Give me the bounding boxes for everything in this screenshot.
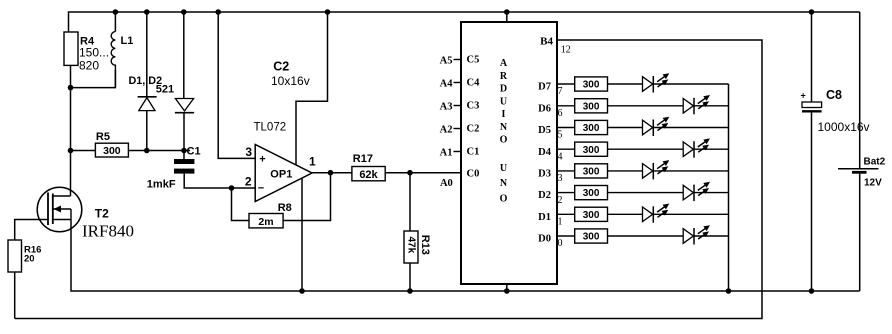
svg-text:6: 6 — [558, 108, 563, 119]
resistor 300 row 5 — [575, 120, 608, 134]
wire D4 to resistor — [557, 148, 575, 150]
resistor R8 — [249, 202, 292, 228]
wire top supply rail — [69, 12, 860, 32]
svg-text:C1: C1 — [187, 146, 201, 158]
wire mosfet gate to R16 — [15, 220, 48, 241]
svg-text:R5: R5 — [96, 131, 110, 143]
svg-text:R: R — [500, 71, 508, 82]
svg-text:12V: 12V — [864, 178, 882, 189]
resistor 300 row 3 — [575, 164, 608, 178]
wire D2 top — [183, 12, 185, 99]
resistor R17 — [352, 153, 385, 181]
LED HL3 — [683, 182, 710, 201]
wire LED 4 cathode to rail — [694, 148, 729, 150]
wire resistor to LED 3 — [608, 170, 643, 172]
LED HL4 — [643, 160, 670, 179]
svg-text:300: 300 — [103, 145, 121, 157]
svg-text:D2: D2 — [538, 190, 551, 201]
svg-text:D1: D1 — [538, 212, 551, 223]
battery Bat2 — [838, 156, 886, 188]
svg-text:2m: 2m — [258, 216, 273, 228]
LED HL1 — [683, 225, 710, 244]
wire LED 3 cathode to rail — [653, 170, 728, 172]
svg-text:300: 300 — [583, 101, 600, 112]
node R13 ground junction — [407, 288, 413, 294]
svg-text:C3: C3 — [467, 100, 480, 111]
wire op-amp pin3 from top rail — [218, 12, 255, 158]
node D2/C1 junction — [181, 148, 187, 154]
svg-text:C2: C2 — [467, 123, 480, 134]
svg-text:3: 3 — [558, 173, 563, 184]
svg-text:4: 4 — [558, 151, 563, 162]
wire C8 bottom — [811, 112, 813, 291]
svg-text:2: 2 — [558, 195, 563, 206]
wire R8 left to pin2 node — [232, 188, 250, 221]
svg-text:R8: R8 — [278, 202, 292, 214]
resistor 300 row 2 — [575, 186, 608, 200]
wire sense rail B4 loop — [15, 40, 762, 319]
svg-text:D6: D6 — [538, 103, 551, 114]
svg-text:T2: T2 — [95, 207, 109, 221]
svg-text:0: 0 — [558, 238, 563, 249]
svg-text:10x16v: 10x16v — [271, 74, 310, 88]
wire left column R4 top — [70, 65, 72, 150]
wire battery bottom — [859, 174, 861, 291]
svg-text:C0: C0 — [467, 169, 480, 180]
svg-text:1000x16v: 1000x16v — [818, 120, 870, 134]
node pin2/C1/R8 junction — [229, 185, 235, 191]
svg-text:−: − — [258, 182, 264, 194]
svg-text:820: 820 — [79, 59, 99, 73]
resistor 300 row 0 — [575, 229, 608, 243]
svg-text:12: 12 — [561, 44, 571, 55]
wire D0 to resistor — [557, 235, 575, 237]
svg-text:D0: D0 — [538, 234, 551, 245]
svg-text:U: U — [500, 163, 507, 174]
svg-text:R13: R13 — [419, 235, 431, 255]
node R4/L1 bottom junction — [68, 85, 74, 91]
svg-text:A1: A1 — [440, 147, 453, 158]
svg-text:C8: C8 — [826, 88, 842, 102]
wire D2 to resistor — [557, 192, 575, 194]
svg-text:3: 3 — [245, 145, 252, 159]
wire LED 0 cathode to rail — [694, 235, 729, 237]
LED HL7 — [683, 95, 710, 114]
wire resistor to LED 2 — [608, 192, 684, 194]
svg-text:B4: B4 — [540, 35, 553, 47]
svg-text:300: 300 — [583, 232, 600, 243]
wire C1 bottom to op-amp pin2 — [184, 174, 255, 188]
resistor R13 — [404, 231, 431, 263]
svg-text:20: 20 — [24, 254, 35, 265]
wire R5 left — [71, 150, 96, 152]
capacitor C8 — [801, 88, 870, 134]
svg-text:1: 1 — [309, 155, 316, 169]
op-amp OP1 — [245, 122, 316, 202]
wire D3 to resistor — [557, 170, 575, 172]
wire op-amp V- to ground rail — [301, 178, 303, 291]
wire R8 feedback right — [283, 173, 330, 221]
resistor 300 row 1 — [575, 207, 608, 221]
resistor 300 row 4 — [575, 142, 608, 156]
svg-text:A0: A0 — [440, 178, 453, 189]
resistor 300 row 7 — [575, 77, 608, 91]
svg-text:7: 7 — [558, 86, 563, 97]
transistor T2 — [37, 187, 134, 240]
svg-text:C4: C4 — [467, 77, 481, 88]
inductor L1 — [111, 32, 133, 88]
wire D1 to resistor — [557, 213, 575, 215]
wire battery top — [859, 12, 861, 168]
node arduino ground junction — [504, 288, 510, 294]
svg-text:TL072: TL072 — [254, 122, 287, 134]
svg-text:N: N — [500, 178, 508, 189]
svg-text:R17: R17 — [353, 153, 373, 165]
node R5/drain junction — [68, 148, 74, 154]
wire D2 bottom to C1 — [183, 113, 185, 159]
wire D7 to resistor — [557, 83, 575, 85]
wire arduino top pin — [506, 12, 508, 22]
svg-text:IRF840: IRF840 — [82, 222, 134, 241]
svg-text:62k: 62k — [359, 169, 378, 181]
svg-text:1: 1 — [558, 217, 563, 228]
wire D1 top — [146, 12, 148, 97]
svg-text:300: 300 — [583, 167, 600, 178]
wire op-amp output — [312, 172, 352, 174]
svg-text:+: + — [259, 154, 265, 166]
wire L1 top — [114, 12, 116, 32]
svg-text:D3: D3 — [538, 169, 551, 180]
svg-text:1mkF: 1mkF — [147, 178, 176, 190]
wire resistor to LED 4 — [608, 148, 684, 150]
diode D1 — [138, 97, 157, 111]
wire D5 to resistor — [557, 127, 575, 129]
svg-text:OP1: OP1 — [270, 168, 292, 180]
node D2 top rail junction — [181, 9, 187, 15]
svg-text:A3: A3 — [440, 101, 453, 112]
node D1 top rail junction — [144, 9, 150, 15]
svg-text:A5: A5 — [440, 55, 453, 66]
svg-text:A4: A4 — [440, 78, 454, 89]
wire op-amp V+ supply step — [296, 12, 328, 167]
svg-text:U: U — [500, 96, 507, 107]
wire LED 5 cathode to rail — [653, 127, 728, 129]
wire left column to mosfet drain — [70, 151, 72, 197]
svg-text:D4: D4 — [538, 147, 552, 158]
svg-text:D7: D7 — [538, 82, 551, 93]
node op-amp V- ground junction — [299, 288, 305, 294]
svg-text:300: 300 — [583, 123, 600, 134]
pin A5 — [454, 59, 462, 61]
wire LED 6 cathode to rail — [694, 105, 729, 107]
svg-text:47k: 47k — [405, 236, 416, 253]
wire R4/L1 bottom link — [71, 70, 116, 88]
capacitor C1 — [147, 146, 201, 191]
svg-text:D: D — [500, 84, 507, 95]
wire resistor to LED 1 — [608, 213, 643, 215]
wire R5 right to C1/D2 node — [128, 150, 190, 152]
LED HL6 — [643, 117, 670, 136]
svg-text:A: A — [500, 58, 508, 69]
wire R13 bottom — [409, 263, 411, 291]
svg-text:C1: C1 — [467, 146, 480, 157]
diode D2 — [175, 99, 194, 113]
svg-text:A2: A2 — [440, 124, 453, 135]
wire resistor to LED 6 — [608, 105, 684, 107]
wire D6 to resistor — [557, 105, 575, 107]
node pin3 wire top rail junction — [215, 9, 221, 15]
wire arduino bottom pin — [506, 284, 508, 291]
LED HL5 — [683, 138, 710, 157]
node op-amp V+ top rail junction — [325, 9, 331, 15]
wire C8 top — [811, 12, 813, 102]
wire LED 7 cathode to rail — [653, 83, 728, 85]
pin A4 — [454, 82, 462, 84]
node C8 top rail junction — [809, 9, 815, 15]
arduino U1 — [461, 22, 557, 284]
node L1 top rail junction — [113, 9, 119, 15]
node arduino Vin top rail junction — [504, 9, 510, 15]
wire D1 bottom — [146, 111, 148, 151]
wire LED 2 cathode to rail — [694, 192, 729, 194]
LED HL2 — [643, 204, 670, 223]
LED HL8 — [643, 73, 670, 92]
node LED rail ground junction — [726, 288, 732, 294]
svg-text:5: 5 — [558, 130, 563, 141]
svg-text:2: 2 — [245, 175, 252, 189]
wire R17 to A0 — [385, 172, 461, 174]
svg-text:521: 521 — [156, 84, 174, 96]
svg-text:Bat2: Bat2 — [864, 156, 886, 167]
svg-text:N: N — [500, 122, 508, 133]
wire resistor to LED 5 — [608, 127, 643, 129]
pin A1 — [454, 151, 462, 153]
svg-text:L1: L1 — [121, 35, 134, 47]
svg-text:300: 300 — [583, 145, 600, 156]
resistor R16 — [8, 240, 41, 272]
svg-text:300: 300 — [583, 210, 600, 221]
svg-text:I: I — [502, 109, 506, 120]
svg-text:300: 300 — [583, 188, 600, 199]
svg-text:O: O — [500, 135, 508, 146]
svg-text:C2: C2 — [273, 60, 289, 74]
node op-amp output junction — [328, 170, 334, 176]
svg-text:300: 300 — [583, 80, 600, 91]
wire ground rail — [71, 220, 860, 292]
wire R16 bottom to sense rail — [14, 272, 16, 319]
svg-text:C5: C5 — [467, 54, 480, 65]
wire R13 top — [409, 173, 411, 231]
node C8 ground junction — [809, 288, 815, 294]
node D1/R5 junction — [144, 148, 150, 154]
resistor R4 — [64, 32, 109, 73]
wire resistor to LED 0 — [608, 235, 684, 237]
svg-text:D5: D5 — [538, 125, 551, 136]
node A0/R13 junction — [407, 170, 413, 176]
wire LED 1 cathode to rail — [653, 213, 728, 215]
wire resistor to LED 7 — [608, 83, 643, 85]
resistor 300 row 6 — [575, 99, 608, 113]
svg-text:O: O — [500, 193, 508, 204]
wire led cathode rail — [728, 84, 730, 291]
svg-text:+: + — [801, 91, 806, 101]
pin A2 — [454, 128, 462, 130]
resistor R5 — [95, 131, 128, 157]
pin A3 — [454, 105, 462, 107]
